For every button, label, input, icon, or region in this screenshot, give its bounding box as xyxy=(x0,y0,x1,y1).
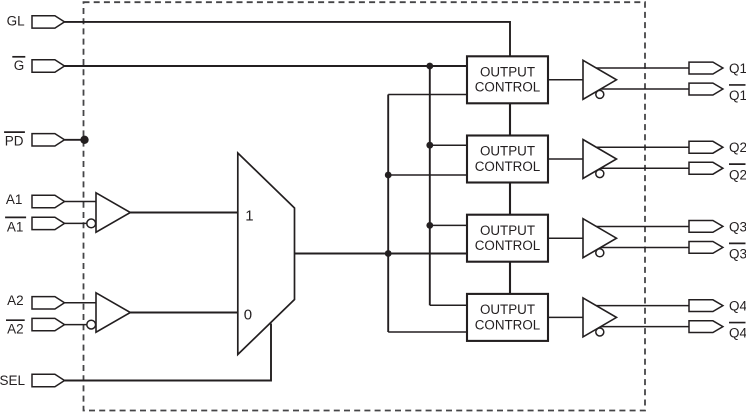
input pin PD-bar xyxy=(32,134,65,146)
wire buffer 1 true output to pin Q1 xyxy=(596,67,690,69)
output buffer 2 xyxy=(583,140,617,179)
svg-text:CONTROL: CONTROL xyxy=(475,317,540,332)
wire chain between OUTPUT CONTROL 1 and 2 xyxy=(509,102,511,136)
buffer 2 inverting bubble xyxy=(596,170,604,178)
wire A1 to receiver U1 xyxy=(65,201,97,203)
output pin Q1 xyxy=(689,62,723,74)
wire receiver U1 output to mux input 1 xyxy=(130,212,238,214)
wire data tap to OUTPUT CONTROL 4 lower input xyxy=(388,331,467,333)
wire buffer 1 inverted output to pin Q1-bar xyxy=(601,88,690,90)
svg-text:OUTPUT: OUTPUT xyxy=(480,302,535,317)
junction dot data bus / mux output xyxy=(385,250,392,257)
svg-text:Q4: Q4 xyxy=(729,326,746,341)
wire mux output to OUTPUT CONTROL 3 lower input xyxy=(295,253,468,255)
svg-text:Q4: Q4 xyxy=(729,299,746,314)
svg-text:OUTPUT: OUTPUT xyxy=(480,223,535,238)
output pin Q3-bar xyxy=(689,242,723,254)
wire buffer 3 inverted output to pin Q3-bar xyxy=(601,246,690,248)
buffer 3 inverting bubble xyxy=(596,249,604,257)
wire buffer 4 inverted output to pin Q4-bar xyxy=(601,326,690,328)
input pin A2 xyxy=(32,297,65,309)
buffer 4 inverting bubble xyxy=(596,328,604,336)
wire PD-bar stub to boundary xyxy=(65,139,85,141)
wire G-bar tap to OUTPUT CONTROL 2 xyxy=(430,144,468,146)
output buffer 1 xyxy=(583,60,617,99)
wire receiver U2 output to mux input 0 xyxy=(130,312,238,314)
receiver U2 inverting-input bubble xyxy=(87,320,96,329)
multiplexer MUX (2:1) xyxy=(238,153,295,355)
input pin A2-bar xyxy=(32,318,65,330)
receiver U1 inverting-input bubble xyxy=(87,219,96,228)
output buffer 4 xyxy=(583,298,617,337)
wire G-bar vertical bus xyxy=(429,66,431,305)
junction dot G-bar bus / OC3 tap xyxy=(426,222,433,229)
svg-text:Q1: Q1 xyxy=(729,61,746,76)
svg-text:SEL: SEL xyxy=(0,373,25,388)
svg-text:OUTPUT: OUTPUT xyxy=(480,65,535,80)
svg-text:CONTROL: CONTROL xyxy=(475,159,540,174)
wire data vertical bus xyxy=(387,95,389,333)
wire OUTPUT CONTROL 1 to buffer 1 xyxy=(548,79,583,81)
wire GL net: pin to top of output-control chain xyxy=(65,22,511,57)
wire buffer 2 true output to pin Q2 xyxy=(596,146,690,148)
input receiver U2 xyxy=(96,293,130,332)
junction dot PD-bar at boundary xyxy=(80,136,88,144)
svg-text:Q2: Q2 xyxy=(729,167,746,182)
input pin SEL xyxy=(32,374,65,386)
svg-text:Q1: Q1 xyxy=(729,88,746,103)
output pin Q2 xyxy=(689,141,723,153)
wire data tap to OUTPUT CONTROL 1 lower input xyxy=(388,94,467,96)
output pin Q2-bar xyxy=(689,162,723,174)
svg-text:0: 0 xyxy=(244,306,252,323)
chip boundary (dashed) xyxy=(84,2,646,410)
wire A1-bar to receiver U1 bubble xyxy=(65,222,87,224)
svg-text:A1: A1 xyxy=(7,219,24,234)
wire OUTPUT CONTROL 2 to buffer 2 xyxy=(548,158,583,160)
output buffer 3 xyxy=(583,219,617,258)
wire buffer 2 inverted output to pin Q2-bar xyxy=(601,167,690,169)
wire A2-bar to receiver U2 bubble xyxy=(65,324,87,326)
wire G-bar net: pin to OUTPUT CONTROL 1 upper input xyxy=(65,65,468,67)
wire buffer 3 true output to pin Q3 xyxy=(596,225,690,227)
wire A2 to receiver U2 xyxy=(65,302,97,304)
buffer 1 inverting bubble xyxy=(596,90,604,98)
OUTPUT CONTROL block 3 xyxy=(467,215,548,262)
svg-text:CONTROL: CONTROL xyxy=(475,238,540,253)
input pin A1-bar xyxy=(32,217,65,229)
input pin G-bar xyxy=(32,60,65,72)
junction dot G-bar bus / OC2 tap xyxy=(426,142,433,149)
junction dot G-bar bus / G-bar wire xyxy=(426,63,433,70)
output pin Q1-bar xyxy=(689,83,723,95)
input pin A1 xyxy=(32,195,65,207)
junction dot data bus / OC2 tap xyxy=(385,172,392,179)
wire data tap to OUTPUT CONTROL 2 lower input xyxy=(388,174,467,176)
OUTPUT CONTROL block 2 xyxy=(467,136,548,183)
svg-text:Q2: Q2 xyxy=(729,140,746,155)
svg-text:Q3: Q3 xyxy=(729,246,746,261)
input pin GL xyxy=(32,16,65,28)
wire chain between OUTPUT CONTROL 2 and 3 xyxy=(509,182,511,216)
wire G-bar tap to OUTPUT CONTROL 4 xyxy=(430,304,468,306)
svg-text:OUTPUT: OUTPUT xyxy=(480,144,535,159)
wire SEL net: pin to mux select input xyxy=(65,324,272,381)
OUTPUT CONTROL block 1 xyxy=(467,56,548,103)
output pin Q4-bar xyxy=(689,321,723,333)
output pin Q3 xyxy=(689,221,723,233)
wire G-bar tap to OUTPUT CONTROL 3 xyxy=(430,224,468,226)
wire OUTPUT CONTROL 4 to buffer 4 xyxy=(548,316,583,318)
svg-text:A1: A1 xyxy=(6,192,23,207)
OUTPUT CONTROL block 4 xyxy=(467,294,548,341)
svg-text:G: G xyxy=(14,58,25,73)
wire chain between OUTPUT CONTROL 3 and 4 xyxy=(509,261,511,295)
wire OUTPUT CONTROL 3 to buffer 3 xyxy=(548,237,583,239)
input receiver U1 xyxy=(96,193,130,232)
svg-text:GL: GL xyxy=(7,14,26,29)
svg-text:1: 1 xyxy=(245,208,253,225)
svg-text:CONTROL: CONTROL xyxy=(475,80,540,95)
svg-text:A2: A2 xyxy=(7,293,24,308)
output pin Q4 xyxy=(689,300,723,312)
svg-text:PD: PD xyxy=(5,133,24,148)
svg-text:A2: A2 xyxy=(7,322,24,337)
svg-text:Q3: Q3 xyxy=(729,219,746,234)
wire buffer 4 true output to pin Q4 xyxy=(596,305,690,307)
